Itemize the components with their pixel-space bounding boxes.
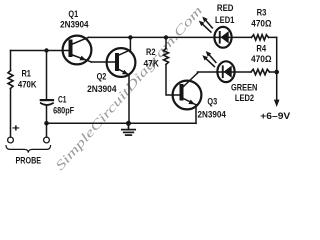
label + — [12, 124, 20, 135]
wire: R2 to Q3 base — [166, 64, 180, 95]
node: Q2 collector junction — [128, 35, 132, 39]
svg-text:47K: 47K — [144, 58, 159, 69]
label Q3 2N3904 — [198, 96, 227, 120]
wire: C1 to probe terminal — [46, 106, 48, 137]
label Q2 2N3904 — [87, 72, 117, 96]
resistor R2 — [164, 48, 169, 64]
svg-text:2N3904: 2N3904 — [87, 84, 117, 95]
svg-text:2N3904: 2N3904 — [60, 20, 89, 31]
LED LED1 — [214, 27, 231, 48]
svg-text:R4: R4 — [256, 43, 266, 54]
svg-text:Q1: Q1 — [68, 9, 78, 20]
svg-text:470Ω: 470Ω — [251, 54, 272, 65]
supply arrow — [274, 100, 280, 107]
svg-text:2N3904: 2N3904 — [198, 110, 227, 121]
label R2 47K — [144, 47, 159, 69]
transistor Q2 — [107, 48, 136, 77]
LED LED2 — [217, 61, 234, 82]
svg-text:RED: RED — [217, 3, 234, 14]
label RED LED1 — [215, 3, 235, 26]
wire: bottom ground rail — [47, 122, 197, 124]
svg-text:C1: C1 — [58, 94, 67, 105]
label PROBE — [16, 156, 42, 167]
node: junction base/C1 — [44, 48, 48, 52]
probe terminal common — [44, 137, 50, 143]
LED1 light arrows — [199, 17, 213, 33]
svg-text:Q3: Q3 — [207, 96, 217, 107]
node: junction bottom rail — [44, 121, 49, 126]
label R4 470 ohm — [251, 43, 272, 65]
label R3 470 ohm — [251, 8, 271, 30]
svg-text:R2: R2 — [146, 47, 156, 58]
wire: Q2 collector riser — [129, 37, 131, 49]
label Q1 2N3904 — [60, 9, 89, 31]
svg-text:R3: R3 — [257, 8, 267, 19]
wire: Q3 collector to LED2 — [198, 72, 218, 73]
resistor R3 — [252, 35, 269, 40]
svg-text:680pF: 680pF — [53, 105, 74, 116]
svg-text:LED2: LED2 — [235, 93, 254, 104]
wire: top rail — [89, 36, 277, 38]
svg-text:+: + — [12, 124, 20, 135]
capacitor C1 — [41, 100, 53, 105]
transistor Q3 — [173, 73, 202, 109]
ground — [122, 123, 135, 135]
wire: C1 upper branch — [46, 51, 48, 100]
svg-text:Q2: Q2 — [97, 72, 107, 83]
svg-text:R1: R1 — [21, 68, 31, 79]
svg-text:GREEN: GREEN — [231, 83, 257, 94]
svg-text:+6–9V: +6–9V — [260, 111, 291, 122]
wire: top-left rail to Q1 base — [11, 50, 69, 52]
probe terminal plus — [8, 137, 14, 143]
wire: LED2 row — [218, 71, 277, 73]
label C1 680pF — [53, 94, 74, 116]
wire: left probe lead vertical — [10, 51, 12, 138]
svg-text:470Ω: 470Ω — [251, 18, 271, 29]
label +6-9V — [260, 111, 291, 122]
wire: Q2 emitter drop — [128, 75, 130, 124]
label GREEN LED2 — [231, 83, 257, 105]
resistor R4 — [251, 69, 270, 74]
svg-text:PROBE: PROBE — [16, 156, 42, 167]
node: supply junction — [274, 70, 279, 75]
wire: R2 top lead — [165, 37, 167, 48]
svg-text:470K: 470K — [18, 80, 37, 91]
wire: Q3 emitter riser — [195, 105, 197, 124]
node: ground junction — [126, 121, 131, 126]
resistor R1 — [8, 71, 13, 89]
node: R2 junction — [164, 35, 168, 39]
label R1 470K — [18, 68, 37, 90]
wire: supply rail down — [276, 37, 278, 100]
svg-text:LED1: LED1 — [215, 15, 235, 26]
probe brace — [6, 146, 51, 153]
transistor Q1 — [63, 36, 92, 65]
LED2 light arrows — [202, 51, 216, 67]
wire: Q1 emitter to Q2 base — [91, 61, 115, 63]
